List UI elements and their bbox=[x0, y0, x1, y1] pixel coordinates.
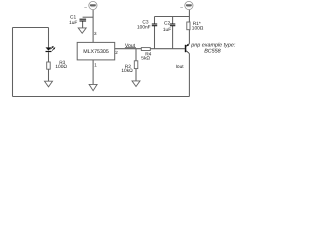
wire pin 1 to ground bbox=[92, 60, 94, 84]
wire collector to bottom rail bbox=[188, 54, 190, 97]
wire R1 to emitter bbox=[188, 30, 190, 44]
svg-text:100nF: 100nF bbox=[137, 25, 151, 31]
wire C2 upper bbox=[172, 17, 174, 24]
capacitor C3 bbox=[152, 24, 157, 26]
svg-text:1: 1 bbox=[94, 63, 97, 68]
ground under R3 bbox=[45, 81, 53, 87]
ground under C1 bbox=[78, 28, 86, 33]
LED D1 bbox=[46, 46, 56, 52]
IC U1 MLX75305 bbox=[77, 42, 115, 60]
transistor Q1 PNP bbox=[185, 44, 190, 54]
capacitor C2 bbox=[170, 24, 175, 26]
wire C1 tee bbox=[83, 16, 94, 18]
wire C1 to ground bbox=[82, 21, 84, 28]
wire supply2 to R1 bbox=[188, 10, 190, 22]
wire top-left horizontal bbox=[13, 27, 49, 29]
svg-text:100Ω: 100Ω bbox=[55, 64, 67, 70]
resistor R4 bbox=[141, 48, 150, 51]
svg-text:3: 3 bbox=[94, 31, 97, 36]
wire LED to R3 bbox=[48, 52, 50, 62]
svg-text:100Ω: 100Ω bbox=[192, 26, 204, 32]
svg-text:10kΩ: 10kΩ bbox=[121, 68, 133, 74]
svg-text:C2: C2 bbox=[164, 21, 170, 27]
wire LED branch top bbox=[48, 28, 50, 48]
wire top-right rail bbox=[155, 16, 190, 18]
svg-text:1uF: 1uF bbox=[163, 27, 171, 33]
resistor R1 bbox=[187, 22, 190, 30]
wire C2 lower bbox=[172, 26, 174, 49]
resistor R2 bbox=[134, 61, 138, 69]
ground under pin 1 bbox=[89, 84, 97, 90]
wire C3 lower bbox=[154, 26, 156, 49]
wire supply1 to pin 3 bbox=[92, 10, 94, 43]
supply terminal +5V right bbox=[180, 1, 193, 9]
wire pin 2 to R4 bbox=[115, 48, 142, 50]
wire C3 upper bbox=[154, 17, 156, 24]
svg-text:MLX75305: MLX75305 bbox=[83, 49, 109, 55]
wire R2 branch upper bbox=[135, 49, 137, 61]
capacitor C1 bbox=[80, 19, 87, 21]
resistor R3 bbox=[47, 62, 51, 69]
svg-text:2: 2 bbox=[115, 50, 118, 55]
svg-text:C1: C1 bbox=[70, 14, 76, 20]
supply terminal +5V left bbox=[84, 1, 97, 9]
svg-text:5kΩ: 5kΩ bbox=[141, 55, 150, 61]
wire R4 to base bbox=[150, 48, 185, 50]
svg-text:Iout: Iout bbox=[176, 64, 185, 70]
wire R2 to ground bbox=[135, 69, 137, 81]
wire bottom rail bbox=[13, 96, 190, 98]
wire left vertical bbox=[12, 28, 14, 97]
wire R3 to ground bbox=[48, 69, 50, 81]
svg-text:BC558: BC558 bbox=[204, 48, 220, 54]
node Vout bbox=[125, 43, 136, 49]
svg-text:1uF: 1uF bbox=[69, 20, 77, 26]
ground under R2 bbox=[132, 81, 140, 87]
